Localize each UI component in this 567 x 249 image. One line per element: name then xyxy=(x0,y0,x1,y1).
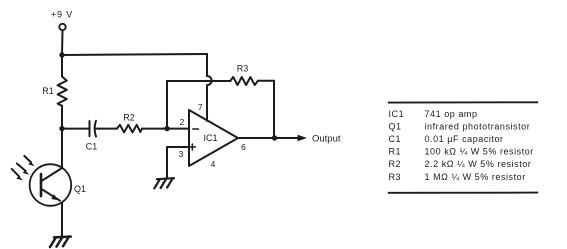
svg-text:7: 7 xyxy=(198,102,203,112)
wire output xyxy=(238,137,299,139)
op-amp minus sign xyxy=(193,128,199,130)
wire xyxy=(258,80,274,82)
svg-text:1 MΩ ¼ W 5% resistor: 1 MΩ ¼ W 5% resistor xyxy=(425,172,526,182)
svg-text:2.2 kΩ ¼ W 5% resistor: 2.2 kΩ ¼ W 5% resistor xyxy=(425,159,532,169)
svg-text:R1: R1 xyxy=(389,147,402,157)
op-amp plus sign xyxy=(189,146,195,148)
resistor R2 xyxy=(117,125,142,133)
wire pin3 xyxy=(167,147,189,179)
svg-text:2: 2 xyxy=(180,117,185,127)
wire xyxy=(142,128,167,130)
parts list table rule top xyxy=(388,101,538,103)
svg-text:+9 V: +9 V xyxy=(51,10,73,20)
svg-text:R3: R3 xyxy=(237,64,249,74)
svg-text:0.01 μF capacitor: 0.01 μF capacitor xyxy=(425,134,504,144)
svg-text:Q1: Q1 xyxy=(389,122,402,132)
node B junction xyxy=(59,126,64,131)
capacitor C1 xyxy=(89,121,91,136)
svg-text:Output: Output xyxy=(312,134,341,145)
wire xyxy=(61,30,64,55)
op-amp IC1 xyxy=(189,110,238,166)
resistor R3 xyxy=(231,77,259,85)
svg-text:IC1: IC1 xyxy=(389,109,405,119)
wire xyxy=(62,54,207,55)
ground op-amp xyxy=(154,178,174,188)
resistor R1 xyxy=(58,77,67,106)
svg-text:4: 4 xyxy=(211,159,216,169)
svg-text:Q1: Q1 xyxy=(74,184,86,194)
light arrow 2 xyxy=(17,164,26,171)
svg-text:3: 3 xyxy=(179,149,184,159)
node C junction inverting input xyxy=(164,126,169,131)
svg-text:6: 6 xyxy=(241,142,246,152)
node D output junction xyxy=(272,135,277,140)
light arrow 1 xyxy=(24,156,31,163)
output arrowhead xyxy=(298,135,308,141)
svg-text:C1: C1 xyxy=(389,134,402,144)
svg-text:R1: R1 xyxy=(42,86,54,96)
wire Q1 collector xyxy=(61,129,63,168)
wire pin7 xyxy=(206,85,208,121)
wire xyxy=(61,106,63,129)
svg-text:R3: R3 xyxy=(389,172,402,182)
svg-text:C1: C1 xyxy=(86,142,98,152)
node +9V terminal xyxy=(59,24,65,30)
svg-text:741 op amp: 741 op amp xyxy=(425,109,478,119)
parts list table rule bottom xyxy=(388,192,538,194)
wire feedback top xyxy=(167,80,231,82)
svg-text:R2: R2 xyxy=(389,159,402,169)
wire xyxy=(206,54,208,76)
light arrow 3 xyxy=(12,169,20,177)
wire xyxy=(62,128,90,130)
wire hop over feedback xyxy=(207,76,212,85)
wire xyxy=(61,55,63,77)
wire xyxy=(167,128,189,130)
wire xyxy=(273,81,275,138)
svg-text:IC1: IC1 xyxy=(203,133,217,143)
wire xyxy=(95,128,117,130)
node A junction xyxy=(59,52,64,57)
svg-text:100 kΩ ¼ W 5% resistor: 100 kΩ ¼ W 5% resistor xyxy=(425,147,534,157)
svg-text:infrared phototransistor: infrared phototransistor xyxy=(425,122,531,132)
wire Q1 emitter xyxy=(61,203,63,238)
transistor Q1 xyxy=(30,164,72,206)
wire feedback up xyxy=(166,81,168,129)
ground Q1 xyxy=(50,237,71,248)
svg-text:R2: R2 xyxy=(123,113,135,123)
